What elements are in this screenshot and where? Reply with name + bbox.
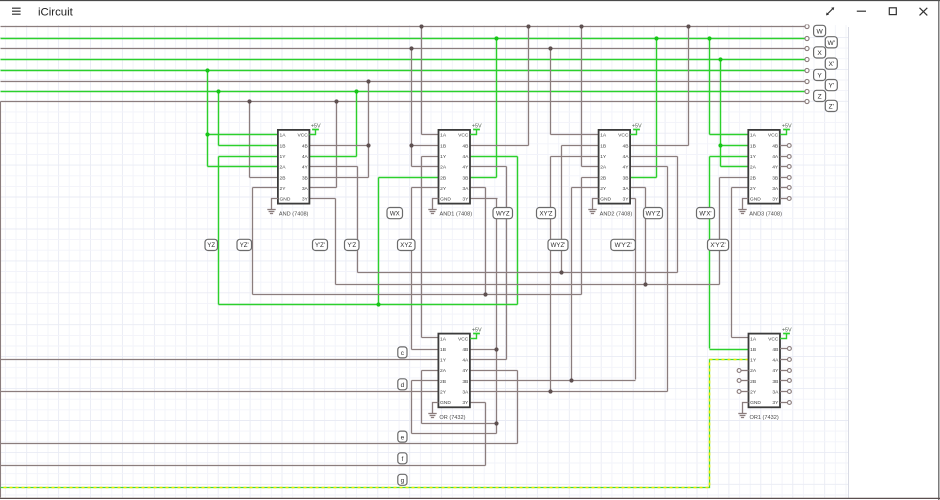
svg-text:VCC: VCC	[458, 133, 469, 139]
terminal circle Y' rail end	[805, 79, 809, 83]
node label W'X'	[697, 208, 715, 219]
wire Z to AND 4A	[356, 92, 358, 157]
wire AND1 3B input	[471, 177, 497, 179]
svg-text:3A: 3A	[772, 186, 779, 192]
wire OR 4A input	[470, 359, 507, 361]
svg-text:1B: 1B	[440, 143, 446, 149]
svg-text:d: d	[401, 382, 405, 389]
wire AND2 2B input	[582, 177, 599, 179]
svg-text:3B: 3B	[772, 175, 778, 181]
node label WX	[387, 208, 403, 219]
wire Z to AND 1B	[218, 92, 220, 146]
power +5V OR1 VCC	[780, 327, 792, 338]
wire net WY'Z from AND2 4Y down	[667, 167, 669, 392]
svg-text:GND: GND	[750, 197, 761, 203]
wire net XYZ from AND1 2Y down	[411, 188, 413, 350]
wire Y' to AND 4B/3B	[368, 82, 370, 178]
svg-text:2A: 2A	[280, 165, 287, 171]
wire OR 1B input	[412, 349, 439, 351]
svg-text:4B: 4B	[302, 143, 308, 149]
svg-text:1B: 1B	[600, 143, 606, 149]
svg-text:4B: 4B	[772, 143, 778, 149]
power +5V AND3 VCC	[780, 123, 792, 134]
node junction YZ' / AND1 3A	[483, 292, 487, 296]
svg-text:WY'Z: WY'Z	[646, 210, 661, 217]
wire Z' rail	[1, 101, 805, 103]
wire AND2 2A input	[582, 166, 599, 168]
wire net Y'Z' horizontal	[336, 284, 720, 286]
node junction Y' rail / AND 4B	[366, 79, 370, 83]
svg-text:+5V: +5V	[472, 123, 482, 129]
open pin AND3 3B	[780, 176, 791, 180]
power +5V AND VCC	[309, 123, 321, 134]
node junction W' rail / AND3 1A	[707, 36, 711, 40]
wire net d from OR 2Y to left edge	[1, 391, 439, 393]
ground OR GND	[428, 403, 438, 418]
svg-text:2B: 2B	[440, 379, 446, 385]
wire net YZ horizontal	[219, 304, 518, 306]
wire AND3 2Y output	[732, 187, 749, 189]
svg-text:GND: GND	[750, 400, 761, 406]
svg-text:g: g	[401, 478, 405, 485]
wire AND2 4Y output	[631, 166, 668, 168]
wire OR 4B input	[470, 349, 497, 351]
chip AND 7408 quad AND gate	[278, 130, 310, 218]
svg-text:+5V: +5V	[782, 123, 792, 129]
svg-text:+5V: +5V	[632, 123, 642, 129]
wire AND2 4B input	[631, 145, 689, 147]
open pin OR1 4B	[780, 347, 791, 351]
wire AND 1A input	[208, 134, 278, 136]
svg-text:2Y: 2Y	[440, 390, 447, 396]
wire W to AND2 2A	[581, 27, 583, 167]
wire Z rail	[1, 91, 805, 93]
wire Z' to AND 2B	[249, 102, 251, 178]
svg-text:AND (7408): AND (7408)	[279, 211, 309, 217]
open pin OR1 4Y	[780, 369, 791, 373]
node junction Y'Z' / AND2 3A	[643, 282, 647, 286]
power +5V AND1 VCC	[470, 123, 482, 134]
svg-text:WX: WX	[390, 210, 400, 217]
svg-text:GND: GND	[600, 197, 611, 203]
svg-text:3B: 3B	[462, 379, 468, 385]
wire net YZ' branch AND1 3A down	[485, 188, 487, 295]
ground AND1 GND	[428, 199, 438, 214]
wire net OR 2A link	[422, 423, 497, 425]
svg-text:1B: 1B	[440, 347, 446, 353]
wire AND1 1B input	[412, 145, 439, 147]
open pin OR1 2B	[737, 379, 748, 383]
svg-text:AND3 (7408): AND3 (7408)	[749, 211, 782, 217]
wire net f horizontal	[1, 465, 486, 467]
svg-text:2Y: 2Y	[750, 390, 757, 396]
open pin OR1 3A	[780, 390, 791, 394]
chip OR 7432 quad OR gate	[438, 334, 470, 422]
svg-text:WYZ': WYZ'	[551, 242, 566, 249]
node junction W rail / AND1 1A	[419, 24, 423, 28]
terminal d	[398, 379, 407, 390]
node label WYZ'	[548, 239, 568, 250]
svg-text:XYZ: XYZ	[400, 242, 412, 249]
svg-text:YZ: YZ	[207, 242, 215, 249]
wire AND3 2B input	[720, 177, 749, 179]
open pin AND3 4Y	[780, 165, 791, 169]
node junction Z' rail / AND 3A	[334, 99, 338, 103]
svg-text:1A: 1A	[600, 133, 607, 139]
terminal W	[814, 25, 826, 36]
svg-text:VCC: VCC	[768, 133, 779, 139]
svg-text:2B: 2B	[600, 175, 606, 181]
node junction X rail / AND2 1A	[548, 46, 552, 50]
open pin AND3 3Y	[780, 197, 791, 201]
wire net W'YZ' from AND1 3Y down	[496, 199, 498, 434]
svg-text:f: f	[402, 456, 404, 463]
wire AND1 2B input	[379, 177, 439, 179]
svg-text:4Y: 4Y	[302, 165, 309, 171]
terminal circle X rail end	[805, 46, 809, 50]
node label XYZ	[398, 239, 416, 250]
wire net e horizontal	[1, 443, 518, 445]
svg-text:3Y: 3Y	[302, 197, 309, 203]
node junction Z rail / AND 4A	[354, 89, 358, 93]
svg-text:XY'Z: XY'Z	[539, 210, 552, 217]
svg-text:Y: Y	[817, 72, 822, 79]
wire AND 2A input	[208, 166, 278, 168]
wire AND1 2A input	[412, 166, 439, 168]
svg-text:1B: 1B	[750, 143, 756, 149]
svg-text:iCircuit: iCircuit	[38, 6, 74, 18]
svg-text:2A: 2A	[600, 165, 607, 171]
wire AND 2Y output	[253, 187, 278, 189]
open pin OR1 4A	[780, 358, 791, 362]
terminal Z	[814, 90, 826, 101]
svg-text:3B: 3B	[462, 175, 468, 181]
svg-text:+5V: +5V	[311, 123, 321, 129]
svg-text:VCC: VCC	[768, 336, 779, 342]
svg-text:W': W'	[828, 40, 835, 47]
svg-text:2A: 2A	[750, 165, 757, 171]
node junction W' rail / AND1 3B	[494, 36, 498, 40]
node label X'Y'Z'	[708, 239, 729, 250]
node label W'Y'Z'	[611, 239, 636, 250]
svg-text:AND1 (7408): AND1 (7408)	[440, 211, 473, 217]
terminal W'	[825, 37, 837, 48]
wire net WYZ' from AND2 2Y down	[571, 188, 573, 381]
terminal circle Z rail end	[805, 89, 809, 93]
wire AND1 1A input	[422, 134, 439, 136]
wire OR1 1B input	[710, 349, 749, 351]
svg-text:1B: 1B	[750, 347, 756, 353]
open pin AND3 3A	[780, 186, 791, 190]
node junction W rail / AND2 2A	[579, 24, 583, 28]
svg-text:4Y: 4Y	[623, 165, 630, 171]
svg-text:2Y: 2Y	[440, 186, 447, 192]
svg-text:Y': Y'	[828, 83, 834, 90]
chip AND2 7408 quad AND gate	[599, 130, 633, 218]
svg-text:OR (7432): OR (7432)	[439, 415, 465, 421]
open pin OR1 2Y	[737, 390, 748, 394]
wire AND3 1Y output	[710, 156, 749, 158]
svg-text:X': X'	[828, 61, 834, 68]
svg-text:4A: 4A	[302, 154, 309, 160]
terminal X	[814, 47, 826, 58]
svg-text:X: X	[817, 50, 822, 57]
wire AND3 2A input	[721, 166, 749, 168]
svg-text:2B: 2B	[280, 175, 286, 181]
open pin AND3 4A	[780, 155, 791, 159]
node label WY'Z	[644, 208, 663, 219]
wire X to AND1 1B/2A	[411, 49, 413, 167]
terminal X'	[825, 58, 837, 69]
svg-text:1Y: 1Y	[280, 154, 287, 160]
node junction Z rail / AND 1B	[216, 89, 220, 93]
svg-text:4A: 4A	[462, 154, 469, 160]
wire OR 3B input	[470, 380, 636, 382]
svg-text:+5V: +5V	[782, 327, 792, 333]
terminal circle Y rail end	[805, 68, 809, 72]
svg-text:Z': Z'	[829, 103, 834, 110]
title bar	[0, 0, 940, 25]
terminal circle Z' rail end	[805, 99, 809, 103]
svg-text:GND: GND	[280, 197, 291, 203]
terminal circle X' rail end	[805, 57, 809, 61]
wire W to AND2 4B	[688, 27, 690, 146]
svg-text:VCC: VCC	[297, 133, 308, 139]
wire AND2 3Y output	[631, 198, 636, 200]
wire net X'Y'Z' from AND3 2Y down	[731, 188, 733, 338]
svg-text:WYZ: WYZ	[496, 210, 510, 217]
svg-text:2A: 2A	[440, 165, 447, 171]
svg-text:3Y: 3Y	[462, 400, 469, 406]
node junction X' rail / AND3 2A	[718, 57, 722, 61]
node junction W rail / AND1 4B	[526, 24, 530, 28]
power +5V OR VCC	[470, 327, 482, 338]
wire X rail	[1, 48, 805, 50]
wire AND 1B input	[219, 145, 278, 147]
svg-text:2Y: 2Y	[600, 186, 607, 192]
node junction Z' rail / AND 2B	[247, 99, 251, 103]
svg-text:1A: 1A	[440, 133, 447, 139]
wire X' rail	[1, 59, 805, 61]
wire net Y'Z' up to AND3 2B	[719, 178, 721, 285]
node junction X rail / AND1 1B	[409, 46, 413, 50]
wire OR 3A input	[470, 391, 668, 393]
wire net YZ up to AND1 4A	[517, 157, 519, 305]
wire OR 2A input	[422, 370, 439, 372]
svg-text:2B: 2B	[440, 175, 446, 181]
svg-text:W'Y'Z': W'Y'Z'	[615, 242, 632, 249]
open pin OR1 3B	[780, 379, 791, 383]
svg-text:3Y: 3Y	[772, 400, 779, 406]
svg-text:2Y: 2Y	[280, 186, 287, 192]
node junction AND3 1B branch	[718, 143, 722, 147]
terminal Z'	[825, 100, 837, 111]
node junction W rail / AND2 4B	[686, 24, 690, 28]
canvas right edge	[848, 27, 850, 498]
svg-text:2B: 2B	[750, 175, 756, 181]
wire AND1 3A input	[471, 187, 486, 189]
terminal circle W' rail end	[805, 36, 809, 40]
svg-text:Z: Z	[818, 93, 822, 100]
svg-text:2A: 2A	[750, 368, 757, 374]
minimize icon	[857, 10, 866, 12]
svg-text:1A: 1A	[280, 133, 287, 139]
chip AND3 7408 quad AND gate	[748, 130, 782, 218]
svg-text:3B: 3B	[772, 379, 778, 385]
open pin AND3 4B	[780, 144, 791, 148]
hamburger menu icon	[12, 8, 21, 14]
open pin OR1 3Y	[780, 401, 791, 405]
wire AND1 4A input	[471, 156, 518, 158]
wire net g from OR1 1Y (selected yellow)	[1, 360, 749, 488]
wire net YZ' from AND 2Y down	[252, 188, 254, 295]
svg-text:2B: 2B	[750, 379, 756, 385]
wire W to AND1 4B	[528, 27, 530, 146]
svg-text:4B: 4B	[462, 347, 468, 353]
wire net YZ from AND 1Y down	[218, 157, 220, 305]
wire left edge net from Z' rail	[0, 102, 2, 498]
svg-text:3A: 3A	[772, 390, 779, 396]
wire net XY'Z from AND2 1Y down	[550, 157, 552, 392]
ground AND GND	[267, 199, 278, 214]
wire net f from OR 3Y down	[485, 403, 487, 466]
ground AND2 GND	[588, 199, 598, 214]
power +5V AND2 VCC	[630, 123, 642, 134]
open pin OR1 2A	[737, 369, 748, 373]
wire net OR 2B link	[412, 433, 497, 435]
wire net to OR 2A	[421, 371, 423, 424]
svg-text:3Y: 3Y	[772, 197, 779, 203]
terminal g	[398, 474, 407, 485]
wire net W'YZ' to OR 2B	[411, 381, 413, 434]
terminal Y'	[825, 80, 837, 91]
wire AND 4Y output	[310, 166, 358, 168]
svg-text:4A: 4A	[772, 358, 779, 364]
svg-text:4B: 4B	[772, 347, 778, 353]
svg-text:AND2 (7408): AND2 (7408)	[600, 211, 633, 217]
svg-text:1A: 1A	[440, 336, 447, 342]
svg-text:3Y: 3Y	[462, 197, 469, 203]
svg-text:GND: GND	[440, 400, 451, 406]
node label YZ'	[237, 239, 252, 250]
wire W' to AND3 1A	[709, 39, 711, 135]
window bottom border	[0, 497, 940, 499]
svg-text:3B: 3B	[302, 175, 308, 181]
svg-text:2Y: 2Y	[750, 186, 757, 192]
svg-text:4B: 4B	[623, 143, 629, 149]
svg-text:1B: 1B	[280, 143, 286, 149]
wire AND1 1Y output	[422, 156, 439, 158]
node label WYZ	[493, 208, 513, 219]
wire AND2 3A input	[631, 187, 646, 189]
wire AND2 1Y output	[551, 156, 599, 158]
node junction XY'Z / OR 3A row	[548, 389, 552, 393]
svg-text:4Y: 4Y	[772, 165, 779, 171]
svg-text:4A: 4A	[462, 358, 469, 364]
svg-text:VCC: VCC	[618, 133, 629, 139]
expand/fullscreen icon	[826, 7, 834, 15]
svg-text:1Y: 1Y	[600, 154, 607, 160]
svg-text:3Y: 3Y	[623, 197, 630, 203]
svg-text:Y'Z: Y'Z	[347, 242, 356, 249]
wire AND3 1A input	[710, 134, 749, 136]
wire OR 1A input	[422, 337, 439, 339]
node junction YZ / AND1 2B	[376, 302, 380, 306]
wire AND2 1A input	[551, 134, 599, 136]
svg-text:e: e	[401, 434, 405, 441]
wire W rail	[1, 26, 805, 28]
node junction WYZ' / OR 3B row	[569, 378, 573, 382]
svg-text:W'X': W'X'	[699, 210, 711, 217]
svg-text:1A: 1A	[750, 133, 757, 139]
node junction Y'Z / AND2 1B	[559, 270, 563, 274]
node label YZ	[205, 239, 218, 250]
svg-text:3B: 3B	[623, 175, 629, 181]
window right border	[938, 0, 940, 500]
wire AND 4A input	[310, 156, 357, 158]
wire Y' rail	[1, 81, 805, 83]
wire net Y'Z horizontal	[358, 272, 678, 274]
wire net W'Y'Z' from AND2 3Y down	[635, 199, 637, 380]
wire AND2 2Y output	[572, 187, 599, 189]
wire Y rail	[1, 70, 805, 72]
wire net Y'Z to AND2 1B	[561, 146, 563, 273]
wire Z' to AND 3A	[336, 102, 338, 188]
svg-text:1Y: 1Y	[440, 154, 447, 160]
svg-text:X'Y'Z': X'Y'Z'	[710, 242, 725, 249]
svg-text:1A: 1A	[750, 336, 757, 342]
terminal f	[398, 453, 407, 464]
svg-text:4A: 4A	[623, 154, 630, 160]
node junction OR 2A link on W'YZ' vertical	[494, 421, 498, 425]
wire net Y'Z up to AND2 4A	[677, 157, 679, 273]
svg-text:4Y: 4Y	[772, 368, 779, 374]
wire AND3 1B input	[721, 145, 749, 147]
svg-text:4Y: 4Y	[462, 368, 469, 374]
svg-text:4B: 4B	[462, 143, 468, 149]
chip OR1 7432 quad OR gate	[749, 334, 781, 422]
svg-text:GND: GND	[440, 197, 451, 203]
wire AND2 3B input	[631, 177, 657, 179]
close icon	[920, 8, 928, 16]
wire AND 1Y output	[219, 156, 278, 158]
wire net WYZ from AND1 4Y down	[506, 167, 508, 360]
node label Y'Z'	[313, 239, 328, 250]
node junction AND 4B branch on Y' vertical	[366, 143, 370, 147]
node junction Y rail / AND 1A	[205, 68, 209, 72]
terminal circle W rail end	[805, 24, 809, 28]
wire net YZ branch up to AND1 2B	[378, 178, 380, 305]
wire AND1 4Y output	[471, 166, 507, 168]
svg-text:3A: 3A	[302, 186, 309, 192]
wire OR 3Y output	[470, 402, 486, 404]
svg-text:Y'Z': Y'Z'	[315, 242, 325, 249]
svg-text:3A: 3A	[462, 186, 469, 192]
wire AND2 4A input	[631, 156, 678, 158]
terminal c	[398, 347, 407, 358]
svg-text:2A: 2A	[440, 368, 447, 374]
chip AND1 7408 quad AND gate	[439, 130, 473, 218]
svg-text:W: W	[816, 28, 823, 35]
svg-text:1Y: 1Y	[440, 358, 447, 364]
wire OR 4Y output	[470, 370, 518, 372]
wire AND 3Y output	[310, 198, 336, 200]
wire AND1 3Y output	[471, 198, 498, 200]
wire AND 2B input	[250, 177, 278, 179]
wire OR1 1A input	[732, 337, 749, 339]
svg-text:3A: 3A	[462, 390, 469, 396]
svg-text:VCC: VCC	[458, 336, 469, 342]
